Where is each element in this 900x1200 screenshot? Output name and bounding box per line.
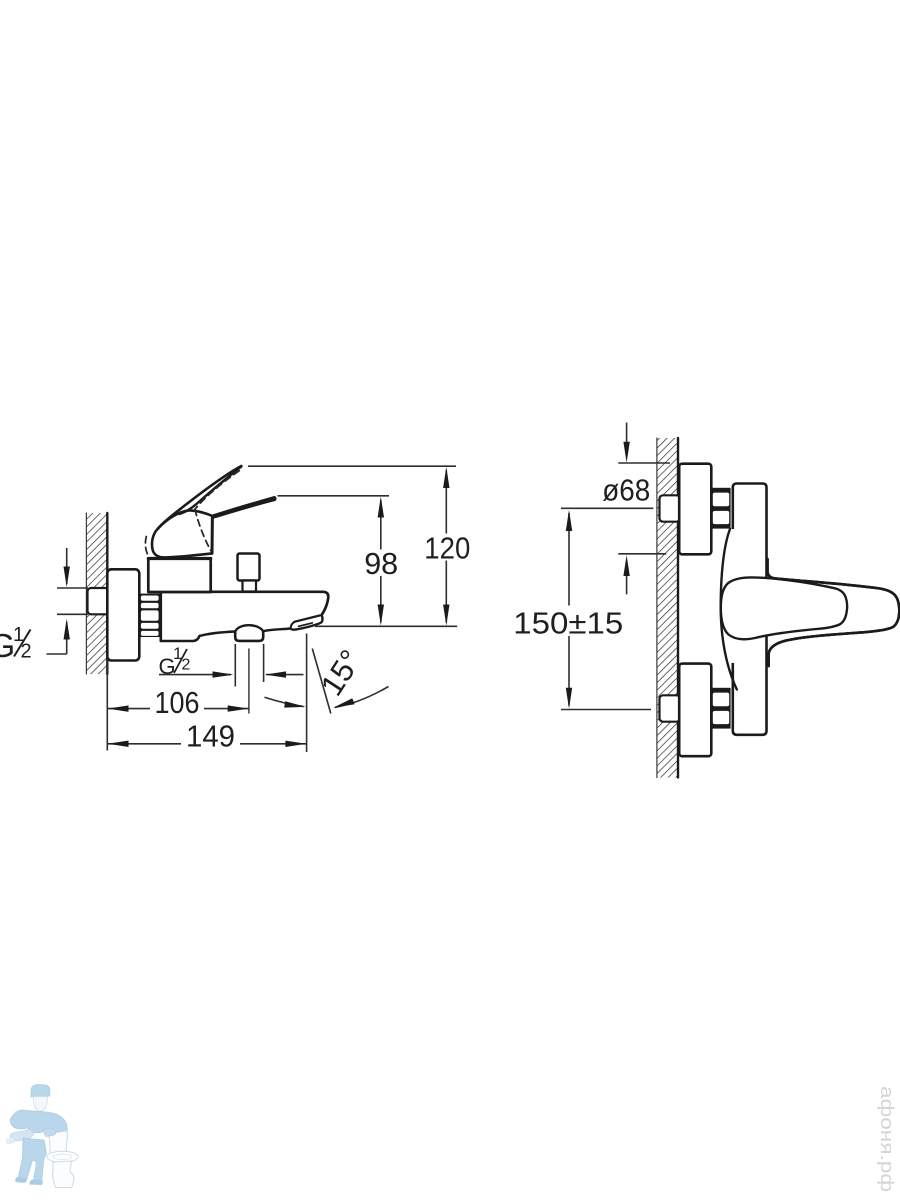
lever handle lowered position	[212, 497, 274, 516]
dimension line 106	[107, 708, 150, 710]
diverter knob	[238, 554, 260, 581]
arrow G1/2 spout right-pointing	[213, 671, 234, 677]
outlet boss below spout	[235, 631, 263, 641]
svg-text:афоня.рф: афоня.рф	[877, 1086, 897, 1192]
handle bulb top edge	[158, 510, 213, 528]
arrowheads	[64, 467, 450, 747]
lower supply nipple	[660, 695, 681, 721]
arrow o68 bottom	[623, 555, 629, 576]
lever handle raised position (solid bottom edge)	[180, 467, 242, 515]
raised handle dashed alternate outline	[145, 471, 239, 557]
arrow angle arc left	[284, 701, 305, 707]
handle bulb bottom edge	[162, 553, 212, 557]
svg-text:106: 106	[155, 685, 200, 720]
arrow 106 right	[228, 705, 249, 711]
arrow 120 bottom	[443, 605, 449, 626]
diverter knob stem	[243, 581, 257, 592]
o68 lower extension line	[618, 553, 666, 555]
handle back curve	[152, 529, 164, 558]
faucet body with spout (left view silhouette)	[161, 592, 328, 641]
arrow 98 top	[378, 496, 384, 517]
arrow G1/2 wall upper	[64, 567, 70, 588]
knurled connection nut	[140, 594, 161, 637]
outlet boss dome contour	[235, 625, 263, 631]
150 upper extension line	[561, 507, 653, 509]
wall back edge line (right view)	[656, 438, 658, 778]
valve body (right view)	[733, 484, 767, 735]
wall back edge line	[85, 513, 87, 674]
extension line from spout tip (bottom reference)	[315, 625, 457, 627]
arrow o68 top	[623, 442, 629, 463]
G1/2 spout leader lines	[159, 674, 231, 676]
arrow 149 left	[108, 741, 129, 747]
handle outer silhouette (right view)	[768, 559, 900, 666]
svg-text:150±15: 150±15	[513, 606, 623, 641]
upper mounting flange	[679, 464, 711, 555]
arrow 98 bottom	[378, 605, 384, 626]
arrow 149 right	[285, 741, 306, 747]
plumber watermark (bottom left)	[6, 1085, 78, 1188]
150 lower extension line	[561, 709, 651, 711]
extension line from raised handle tip (120)	[248, 465, 456, 467]
angle arc segments	[265, 697, 304, 706]
G1/2 left dimension lines	[66, 548, 68, 584]
aerator face lines at spout tip	[294, 616, 319, 622]
spout tip extension line (vertical)	[306, 634, 308, 753]
arrow 150 top	[566, 510, 572, 531]
wall flange (escutcheon)	[107, 569, 139, 660]
wall face line	[106, 513, 108, 674]
dimension texts (left view)	[155, 531, 471, 754]
wall hatching (right view)	[657, 438, 679, 778]
wall face line (right view)	[677, 438, 679, 778]
svg-text:ø68: ø68	[602, 473, 650, 508]
arrow 120 top	[443, 467, 449, 488]
dimension line 149	[107, 743, 181, 745]
cartridge cap under handle	[148, 558, 210, 592]
dimension line 98	[380, 500, 382, 550]
upper supply nipple	[660, 495, 681, 521]
arrow angle arc right	[333, 698, 354, 708]
lever neck front edge	[211, 516, 214, 553]
wall hatching (left view)	[86, 513, 107, 674]
dimension line 150	[568, 513, 570, 606]
handle bulb silhouette curve	[721, 529, 745, 663]
label G1/2 (wall, left)	[0, 624, 32, 664]
dimension line 120	[445, 470, 447, 534]
arrow G1/2 spout left-pointing	[265, 671, 286, 677]
lever handle raised position (solid top edge)	[158, 466, 241, 529]
o68 lower arrow line	[626, 561, 628, 595]
svg-text:98: 98	[364, 546, 398, 581]
arrow G1/2 wall lower	[64, 619, 70, 640]
svg-text:2: 2	[182, 657, 191, 674]
outlet extension lines	[234, 644, 236, 687]
lower mounting flange	[679, 664, 711, 757]
arrow 150 bottom	[566, 688, 572, 709]
svg-text:2: 2	[21, 641, 32, 663]
label G1/2 (spout outlet)	[159, 644, 191, 679]
o68 upper arrow line	[626, 423, 628, 457]
arrow 106 left	[108, 705, 129, 711]
svg-text:149: 149	[186, 719, 235, 754]
upper knurled nut	[712, 488, 731, 529]
15 degree tilted line	[312, 649, 331, 714]
wall face extension below flange	[106, 661, 108, 751]
svg-text:120: 120	[424, 531, 470, 566]
o68 upper extension line	[618, 462, 670, 464]
handle grip inner contour	[721, 577, 847, 639]
lower knurled nut	[712, 688, 731, 729]
supply nipple G1/2 (in wall)	[88, 588, 110, 614]
svg-text:15°: 15°	[314, 644, 369, 702]
extension line from lowered handle tip (98)	[278, 495, 390, 497]
